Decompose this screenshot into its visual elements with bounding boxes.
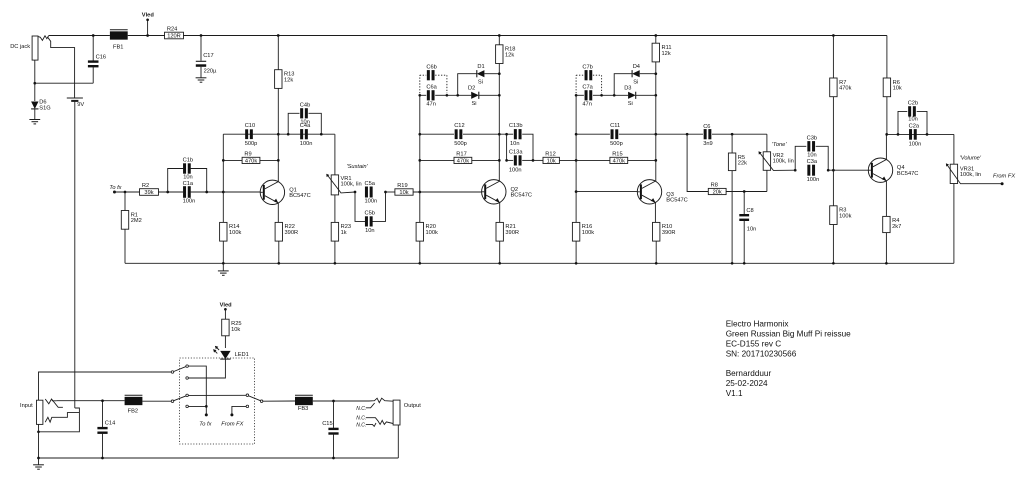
- wire pole2 down to To fx: [188, 405, 206, 407]
- svg-text:10n: 10n: [807, 152, 817, 158]
- node rail R18: [498, 34, 501, 37]
- svg-text:100k, lin: 100k, lin: [773, 159, 794, 165]
- node Q3 col C11: [654, 133, 657, 136]
- svg-text:100n: 100n: [183, 199, 196, 205]
- wire R8 to C8 node: [726, 191, 767, 193]
- wire To fx to R2: [115, 191, 140, 193]
- svg-text:Bernardduur: Bernardduur: [726, 369, 772, 378]
- svg-text:C5a: C5a: [365, 181, 376, 187]
- svg-text:R9: R9: [244, 152, 251, 158]
- wire clip row stage3: [602, 94, 629, 96]
- node C1 right: [205, 191, 208, 194]
- svg-text:R8: R8: [711, 183, 718, 189]
- node input sleeve: [37, 430, 40, 433]
- svg-text:C8: C8: [746, 208, 753, 214]
- node rail R13: [277, 34, 280, 37]
- svg-text:100k: 100k: [839, 213, 851, 219]
- svg-text:100k, lin: 100k, lin: [341, 182, 362, 188]
- svg-text:10n: 10n: [510, 141, 520, 147]
- potentiometer VR31 100k lin: [950, 164, 957, 183]
- svg-text:10n: 10n: [908, 116, 918, 122]
- svg-text:C4b: C4b: [300, 102, 310, 108]
- switch pole3 throw down: [246, 405, 249, 408]
- node C7a left: [575, 94, 578, 97]
- node Q2 col D2: [498, 94, 501, 97]
- node gnd R10: [655, 262, 658, 265]
- svg-text:From FX: From FX: [993, 174, 1015, 180]
- capacitor C7b optional dashed: [575, 75, 577, 93]
- wire R24 to rail: [184, 35, 279, 37]
- wire Q1 collector column: [277, 88, 279, 181]
- resistor R7 470k: [832, 36, 834, 79]
- resistor R24 120R: [165, 32, 184, 39]
- diode D6 S1G: [34, 83, 36, 101]
- svg-text:Si: Si: [628, 101, 633, 107]
- svg-text:Electro Harmonix: Electro Harmonix: [726, 320, 789, 329]
- wire R1 bottom to ground rail: [124, 229, 126, 263]
- node To fx terminal: [113, 191, 116, 194]
- node gnd R5: [731, 262, 734, 265]
- svg-text:C13a: C13a: [509, 149, 523, 155]
- resistor R10 390R: [653, 222, 660, 241]
- svg-text:C6a: C6a: [426, 85, 437, 91]
- resistor R1 2M2: [124, 192, 126, 211]
- input jack tip contact: [45, 399, 56, 404]
- resistor R12 10k: [533, 159, 543, 161]
- switch pole2 throw down: [186, 405, 189, 408]
- wire Q4 emitter to R4: [885, 181, 887, 217]
- svg-text:Si: Si: [478, 80, 483, 86]
- svg-text:FB3: FB3: [298, 406, 308, 412]
- VR1 wiper: [327, 175, 355, 193]
- svg-text:470k: 470k: [245, 159, 257, 165]
- svg-text:C12: C12: [454, 123, 464, 129]
- wire C6 to VR2: [712, 133, 767, 135]
- VR3 wiper: [947, 165, 1002, 184]
- DC jack switch contact to battery: [47, 37, 74, 98]
- svg-text:390R: 390R: [285, 230, 299, 236]
- node stage3 base row: [575, 190, 578, 193]
- node C13 left bottom: [505, 159, 508, 162]
- wire LED cathode: [188, 359, 225, 378]
- svg-text:120R: 120R: [167, 34, 181, 40]
- node C8 top: [743, 190, 746, 193]
- node C1 left: [166, 191, 169, 194]
- node Q1 base R14: [222, 191, 225, 194]
- node C4 left: [287, 133, 290, 136]
- node Q3 base col R15: [575, 159, 578, 162]
- node rail R7: [832, 34, 835, 37]
- svg-text:220µ: 220µ: [204, 69, 217, 75]
- capacitor C13b 10n: [507, 133, 514, 135]
- wire to VR1 top: [333, 133, 336, 135]
- svg-text:BC547C: BC547C: [511, 193, 533, 199]
- node gnd C8: [743, 262, 746, 265]
- output jack tip contact: [369, 398, 393, 402]
- wire C10 feedback row: [223, 133, 278, 135]
- capacitor C10 500p: [245, 129, 248, 139]
- wire C4 coupling row: [278, 133, 334, 135]
- node C7b right: [600, 94, 603, 97]
- node C13 right: [532, 159, 535, 162]
- diode D2 Si: [471, 92, 479, 99]
- svg-text:Input: Input: [20, 403, 33, 409]
- svg-text:V1.1: V1.1: [726, 389, 743, 398]
- node Vled bottom terminal: [224, 308, 227, 311]
- node gnd R16: [575, 262, 578, 265]
- wire VR1 bottom to R23: [334, 195, 336, 223]
- wire Q2 emitter to R21: [499, 203, 501, 223]
- ground below D6: [34, 109, 36, 120]
- resistor R14 100k: [222, 192, 224, 222]
- capacitor C2a 100n: [909, 129, 912, 140]
- wire pole2 up to pole3: [188, 394, 246, 396]
- svg-text:12k: 12k: [662, 51, 671, 57]
- svg-text:D4: D4: [633, 64, 640, 70]
- resistor R19 10k: [395, 189, 413, 195]
- wire VR2 top: [766, 134, 768, 152]
- svg-text:9V: 9V: [77, 102, 84, 108]
- node C3 right: [827, 169, 830, 172]
- node C10 right Q1 collector: [277, 133, 280, 136]
- VR2 wiper: [760, 153, 796, 171]
- switch pole3 common: [260, 400, 263, 403]
- node C4 right: [320, 133, 323, 136]
- resistor R23 1k: [331, 222, 338, 241]
- capacitor C6b optional dashed: [419, 75, 421, 93]
- wire Q3 base row: [576, 191, 637, 193]
- svg-text:C10: C10: [245, 123, 255, 129]
- wire battery to sleeve dogleg: [39, 408, 80, 432]
- svg-text:C6b: C6b: [426, 65, 436, 71]
- resistor R6 10k: [883, 78, 890, 97]
- capacitor C2b 10n: [898, 111, 907, 134]
- wire Q3 collector column: [655, 62, 657, 181]
- node Q4 base: [832, 169, 835, 172]
- potentiometer VR2 100k lin: [763, 152, 770, 171]
- footswitch dashed outline: [180, 358, 255, 444]
- capacitor C14: [102, 401, 104, 428]
- svg-text:Vled: Vled: [220, 302, 233, 308]
- wire top rail left: [49, 35, 110, 37]
- node R17 left: [418, 159, 421, 162]
- svg-text:390R: 390R: [505, 230, 519, 236]
- capacitor C16: [92, 36, 94, 62]
- svg-text:100n: 100n: [365, 199, 378, 205]
- wire sleeve to C16 bottom: [35, 82, 93, 84]
- svg-text:'Volume': 'Volume': [960, 155, 982, 161]
- switch pole2 throw up: [186, 394, 189, 397]
- svg-text:BC547C: BC547C: [897, 171, 919, 177]
- wire collector to C6: [656, 133, 703, 135]
- wire pole3 to FB3: [263, 400, 295, 402]
- svg-text:D3: D3: [624, 86, 631, 92]
- capacitor C6a 47n: [420, 94, 426, 96]
- wire R2 to C1: [159, 191, 184, 193]
- capacitor C12 500p: [420, 133, 454, 135]
- svg-text:100k: 100k: [229, 230, 241, 236]
- input jack ring contact: [45, 413, 79, 423]
- resistor R25 10k: [222, 319, 229, 336]
- svg-text:FB1: FB1: [113, 44, 123, 50]
- svg-text:Si: Si: [633, 80, 638, 86]
- capacitor C8 10n: [743, 192, 745, 215]
- capacitor C7a 47n: [576, 94, 584, 96]
- wire clip row stage2: [447, 94, 471, 96]
- wire FB1 to R24: [128, 35, 165, 37]
- node C5 left: [354, 191, 357, 194]
- svg-text:22k: 22k: [738, 161, 747, 167]
- wire branch down to R8: [687, 134, 708, 191]
- svg-text:C11: C11: [610, 123, 620, 129]
- resistor R18 12k: [498, 36, 500, 45]
- wire base column stage2: [419, 95, 421, 192]
- node gnd R14: [222, 262, 225, 265]
- svg-text:C13b: C13b: [509, 123, 523, 129]
- svg-text:R15: R15: [612, 152, 622, 158]
- capacitor C15: [333, 401, 335, 429]
- svg-text:Si: Si: [472, 101, 477, 107]
- output jack J3: [393, 400, 400, 425]
- wire C5 to R19: [386, 191, 395, 193]
- switch pole1 arm: [174, 367, 186, 372]
- svg-text:DC jack: DC jack: [10, 44, 30, 50]
- wire Q3 emitter to R10: [654, 203, 656, 223]
- node rail R11: [654, 34, 657, 37]
- svg-text:100n: 100n: [909, 141, 922, 147]
- wire base column stage1: [222, 134, 224, 192]
- capacitor C5b 10n: [355, 192, 365, 221]
- node bottom rail C15: [332, 457, 335, 460]
- node R8 branch: [686, 133, 689, 136]
- svg-text:C17: C17: [203, 53, 213, 59]
- node C6a left: [418, 94, 421, 97]
- node D branch stage3: [613, 94, 616, 97]
- svg-text:10k: 10k: [547, 159, 556, 165]
- diode D1 Si: [477, 70, 485, 77]
- ground symbol bottom: [38, 458, 40, 465]
- svg-text:20k: 20k: [713, 190, 722, 196]
- wire VR2 bottom: [766, 170, 768, 191]
- node R9 left: [222, 159, 225, 162]
- wire C3 to Q4 base: [828, 169, 868, 171]
- svg-text:Green Russian Big Muff Pi reis: Green Russian Big Muff Pi reissue: [726, 330, 851, 339]
- resistor R22 390R: [275, 222, 282, 241]
- svg-text:R2: R2: [142, 183, 149, 189]
- svg-text:'Tone': 'Tone': [772, 142, 788, 148]
- node bottom rail left: [37, 457, 40, 460]
- LED arrows: [215, 346, 219, 350]
- resistor R13 12k: [275, 70, 282, 89]
- svg-text:470k: 470k: [839, 86, 851, 92]
- svg-text:47n: 47n: [426, 102, 436, 108]
- input jack J2: [37, 400, 43, 424]
- svg-text:C1b: C1b: [183, 157, 193, 163]
- wire Vled stub: [147, 20, 149, 36]
- wire R6 to Q4 collector: [886, 97, 888, 135]
- svg-text:C3a: C3a: [807, 159, 818, 165]
- wire D1 branch: [458, 74, 477, 96]
- node Q2 base R20: [418, 191, 421, 194]
- wire DC jack sleeve down: [34, 60, 36, 83]
- node C2 right: [926, 133, 929, 136]
- svg-text:100n: 100n: [300, 141, 313, 147]
- svg-text:Output: Output: [404, 403, 421, 409]
- ferrite bead FB3: [295, 397, 313, 405]
- ferrite bead FB1: [110, 31, 128, 39]
- node D branch stage2: [456, 94, 459, 97]
- DC jack tip contact: [38, 36, 49, 41]
- svg-text:N.C.: N.C.: [356, 422, 366, 428]
- node gnd R4: [885, 262, 888, 265]
- wire D4 branch: [614, 74, 632, 96]
- node C13 left top: [505, 133, 508, 136]
- node C3 left: [794, 169, 797, 172]
- svg-text:25-02-2024: 25-02-2024: [726, 379, 768, 388]
- svg-text:S1G: S1G: [39, 105, 50, 111]
- node gnd R3: [832, 262, 835, 265]
- capacitor C4b 10n: [288, 113, 299, 134]
- capacitor C11 500p: [576, 133, 610, 135]
- node Q2 col R17: [498, 159, 501, 162]
- svg-text:To fx: To fx: [109, 185, 122, 191]
- resistor R2 39k: [140, 189, 159, 196]
- svg-text:10n: 10n: [183, 175, 193, 181]
- svg-text:C2a: C2a: [909, 123, 920, 129]
- wire R5 bottom to ground: [731, 171, 733, 264]
- node C16 top: [92, 34, 95, 37]
- wire R19 to Q2 base: [413, 191, 482, 193]
- svg-text:1k: 1k: [341, 230, 347, 236]
- node C14 top: [101, 399, 104, 402]
- svg-text:C1a: C1a: [183, 181, 194, 187]
- capacitor C1a 100n: [183, 186, 186, 198]
- svg-text:10n: 10n: [300, 119, 310, 125]
- node Q3 col R15: [654, 159, 657, 162]
- node gnd R22: [277, 262, 280, 265]
- node Vled terminal: [146, 18, 149, 21]
- svg-text:LED1: LED1: [235, 352, 249, 358]
- wire base column stage3: [575, 95, 577, 191]
- svg-text:10n: 10n: [365, 228, 375, 234]
- svg-text:470k: 470k: [613, 159, 625, 165]
- capacitor C6 3n9: [704, 129, 707, 139]
- svg-text:100k: 100k: [582, 230, 594, 236]
- diode D4 Si: [632, 70, 640, 77]
- resistor R3 100k: [832, 170, 834, 206]
- node bottom rail C14: [101, 457, 104, 460]
- capacitor C4a 100n: [300, 129, 303, 139]
- wire Vled to R25: [224, 309, 226, 319]
- wire pole3 down to From FX terminal: [232, 406, 246, 415]
- wire Q2 collector column: [498, 64, 500, 182]
- svg-text:C5b: C5b: [365, 210, 375, 216]
- svg-text:10k: 10k: [399, 190, 408, 196]
- resistor R21 390R: [496, 222, 503, 241]
- switch pole2 common: [171, 400, 174, 403]
- svg-text:To fx: To fx: [199, 421, 212, 427]
- wire bottom ground rail: [39, 457, 399, 459]
- node From FX bottom terminal: [230, 413, 233, 416]
- svg-text:10n: 10n: [747, 226, 757, 232]
- svg-text:47n: 47n: [582, 102, 592, 108]
- svg-text:SN: 201710230566: SN: 201710230566: [726, 349, 797, 358]
- wire output sleeve: [397, 425, 399, 458]
- node To fx junction: [205, 405, 208, 408]
- resistor R5 22k: [731, 134, 733, 153]
- svg-text:C7b: C7b: [582, 65, 592, 71]
- svg-text:100n: 100n: [509, 167, 522, 173]
- node From FX terminal: [1001, 182, 1004, 185]
- switch pole1 common: [171, 371, 174, 374]
- svg-text:2M2: 2M2: [131, 218, 142, 224]
- wire tip to C14/FB2: [56, 400, 124, 402]
- wire pole1 up to To fx column: [188, 366, 206, 415]
- svg-text:12k: 12k: [505, 52, 514, 58]
- node gnd R21: [498, 262, 501, 265]
- switch pole3 arm: [249, 396, 261, 401]
- resistor R17 470k: [420, 159, 454, 161]
- svg-text:C3b: C3b: [807, 135, 817, 141]
- input jack tip switch contact: [52, 399, 63, 407]
- node C17 top: [200, 34, 203, 37]
- transistor Q4 BC547C: [868, 158, 892, 182]
- resistor R9 470k: [223, 159, 242, 161]
- battery BT1 9V: [67, 97, 83, 99]
- svg-text:D2: D2: [468, 86, 475, 92]
- potentiometer VR1 100k lin: [331, 175, 338, 195]
- node To fx bottom terminal: [205, 413, 208, 416]
- wire R7 to base: [832, 97, 834, 171]
- transistor Q3 BC547C: [637, 180, 661, 204]
- ground below C17: [196, 77, 207, 79]
- node A R5 top: [731, 133, 734, 136]
- svg-text:R17: R17: [456, 152, 466, 158]
- svg-text:500p: 500p: [610, 141, 623, 147]
- node Q2 col D1: [498, 72, 501, 75]
- node gnd R20: [418, 262, 421, 265]
- node C2 left: [897, 133, 900, 136]
- resistor R4 2k7: [883, 216, 890, 232]
- wire input to switch pole1: [39, 372, 172, 400]
- resistor R11 12k: [655, 36, 657, 44]
- svg-text:10k: 10k: [231, 327, 240, 333]
- svg-text:C15: C15: [322, 421, 332, 427]
- svg-text:100k, lin: 100k, lin: [960, 172, 981, 178]
- svg-text:From FX: From FX: [221, 421, 243, 427]
- resistor R15 470k: [576, 159, 610, 161]
- node stage2 base col C12: [418, 133, 421, 136]
- node C15 top: [332, 400, 335, 403]
- node gnd R23: [334, 262, 337, 265]
- wire main ground rail: [125, 262, 954, 264]
- node Q3 col D3: [654, 94, 657, 97]
- svg-text:10k: 10k: [893, 86, 902, 92]
- svg-text:N.C.: N.C.: [356, 416, 366, 422]
- switch pole3 throw up: [246, 394, 249, 397]
- node R1 top: [124, 191, 127, 194]
- transistor Q2 BC547C: [482, 180, 506, 204]
- DC jack J1: [32, 36, 38, 60]
- svg-text:12k: 12k: [284, 77, 293, 83]
- transistor Q1 BC547C: [260, 180, 284, 204]
- wire C2 row: [887, 133, 954, 135]
- resistor R16 100k: [575, 192, 577, 223]
- wire C1 to Q1 base: [191, 191, 261, 193]
- ferrite bead FB2: [125, 397, 143, 405]
- node Vled tap: [146, 34, 149, 37]
- capacitor C1b 10n: [168, 169, 184, 193]
